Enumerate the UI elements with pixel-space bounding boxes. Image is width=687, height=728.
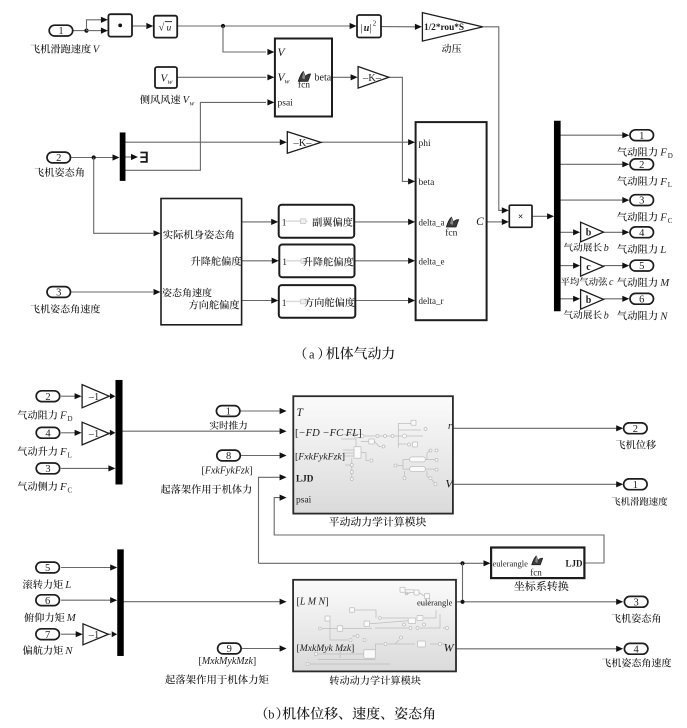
svg-text:delta_a: delta_a <box>419 218 445 228</box>
svg-text:1: 1 <box>633 480 638 491</box>
svg-text:F: F <box>59 481 67 493</box>
svg-text:5: 5 <box>639 261 644 272</box>
svg-text:×: × <box>518 213 523 223</box>
svg-text:V: V <box>93 45 101 56</box>
svg-text:[FxkFykFzk]: [FxkFykFzk] <box>202 466 253 477</box>
svg-text:phi: phi <box>419 139 432 149</box>
svg-text:F: F <box>59 446 67 458</box>
svg-text:eulerangle: eulerangle <box>493 558 529 568</box>
svg-text:[FxkFykFzk]: [FxkFykFzk] <box>295 451 345 462</box>
svg-text:w: w <box>190 99 195 107</box>
svg-text:2: 2 <box>373 20 377 28</box>
svg-text:fcn: fcn <box>298 80 310 91</box>
svg-text:L: L <box>659 244 666 256</box>
svg-text:beta: beta <box>419 178 436 188</box>
svg-text:|: | <box>361 23 363 34</box>
svg-text:c: c <box>586 262 591 273</box>
svg-text:beta: beta <box>315 73 332 84</box>
svg-text:[L M N]: [L M N] <box>297 596 329 607</box>
svg-text:1: 1 <box>282 219 287 229</box>
svg-text:[MxkMyk Mzk]: [MxkMyk Mzk] <box>297 643 355 654</box>
svg-text:D: D <box>68 415 73 423</box>
svg-text:L: L <box>64 579 71 591</box>
svg-text:fcn: fcn <box>530 568 542 578</box>
svg-text:5: 5 <box>45 563 50 574</box>
svg-text:r: r <box>448 421 452 432</box>
svg-text:u: u <box>167 24 172 34</box>
svg-text:F: F <box>59 410 67 422</box>
svg-text:7: 7 <box>45 630 50 641</box>
svg-text:4: 4 <box>639 228 645 239</box>
svg-text:psai: psai <box>278 99 294 109</box>
svg-text:–1: –1 <box>88 429 100 440</box>
svg-text:N: N <box>659 310 668 322</box>
svg-text:b: b <box>586 295 592 306</box>
svg-text:1: 1 <box>639 131 644 142</box>
svg-text:3: 3 <box>639 196 644 207</box>
svg-text:b: b <box>268 708 274 722</box>
svg-text:–K–: –K– <box>362 73 382 84</box>
svg-text:2: 2 <box>633 424 638 435</box>
svg-text:b: b <box>604 310 609 321</box>
svg-text:F: F <box>659 212 667 224</box>
svg-text:M: M <box>66 612 77 624</box>
svg-text:3: 3 <box>56 288 61 299</box>
svg-text:M: M <box>659 277 670 289</box>
svg-text:L: L <box>668 181 672 189</box>
svg-text:–K–: –K– <box>292 138 312 149</box>
svg-text:F: F <box>659 147 667 159</box>
svg-text:delta_r: delta_r <box>419 296 444 306</box>
svg-text:√: √ <box>159 22 165 34</box>
svg-text:2: 2 <box>639 160 644 171</box>
svg-text:LJD: LJD <box>296 474 314 484</box>
svg-text:a: a <box>309 347 315 361</box>
svg-text:3: 3 <box>633 597 638 608</box>
svg-text:2: 2 <box>45 392 50 403</box>
svg-text:w: w <box>168 77 173 86</box>
svg-text:1: 1 <box>282 258 287 268</box>
svg-text:LJD: LJD <box>566 558 584 568</box>
svg-text:4: 4 <box>45 428 51 439</box>
svg-text:3: 3 <box>45 464 50 475</box>
svg-text:∃: ∃ <box>139 150 148 166</box>
svg-text:2: 2 <box>56 153 61 164</box>
svg-text:C: C <box>68 486 73 494</box>
svg-text:F: F <box>659 176 667 188</box>
svg-text:1: 1 <box>58 26 63 37</box>
svg-text:1: 1 <box>226 407 231 418</box>
svg-text:1/2*rou*S: 1/2*rou*S <box>424 23 464 33</box>
svg-text:8: 8 <box>226 451 231 462</box>
svg-text:–1: –1 <box>88 630 100 641</box>
svg-text:–1: –1 <box>88 392 100 403</box>
svg-text:N: N <box>64 645 73 657</box>
svg-text:L: L <box>68 451 72 459</box>
svg-text:6: 6 <box>639 294 644 305</box>
svg-text:psai: psai <box>296 496 312 506</box>
svg-text:c: c <box>609 277 614 288</box>
svg-text:w: w <box>285 77 290 86</box>
svg-text:W: W <box>444 641 455 655</box>
svg-text:C: C <box>476 216 484 228</box>
svg-text:6: 6 <box>45 596 50 607</box>
svg-text:b: b <box>604 243 609 254</box>
svg-text:fcn: fcn <box>445 227 457 238</box>
svg-text:C: C <box>668 217 673 225</box>
svg-text:4: 4 <box>633 644 639 655</box>
svg-text:b: b <box>586 228 592 239</box>
svg-text:eulerangle: eulerangle <box>417 598 453 608</box>
svg-text:D: D <box>668 152 673 160</box>
svg-text:[MxkMykMzk]: [MxkMykMzk] <box>199 656 257 667</box>
svg-text:|: | <box>369 23 371 34</box>
svg-text:9: 9 <box>227 644 232 655</box>
svg-text:1: 1 <box>282 299 287 309</box>
svg-text:[−FD −FC FL]: [−FD −FC FL] <box>295 428 362 439</box>
svg-text:delta_e: delta_e <box>419 256 445 266</box>
